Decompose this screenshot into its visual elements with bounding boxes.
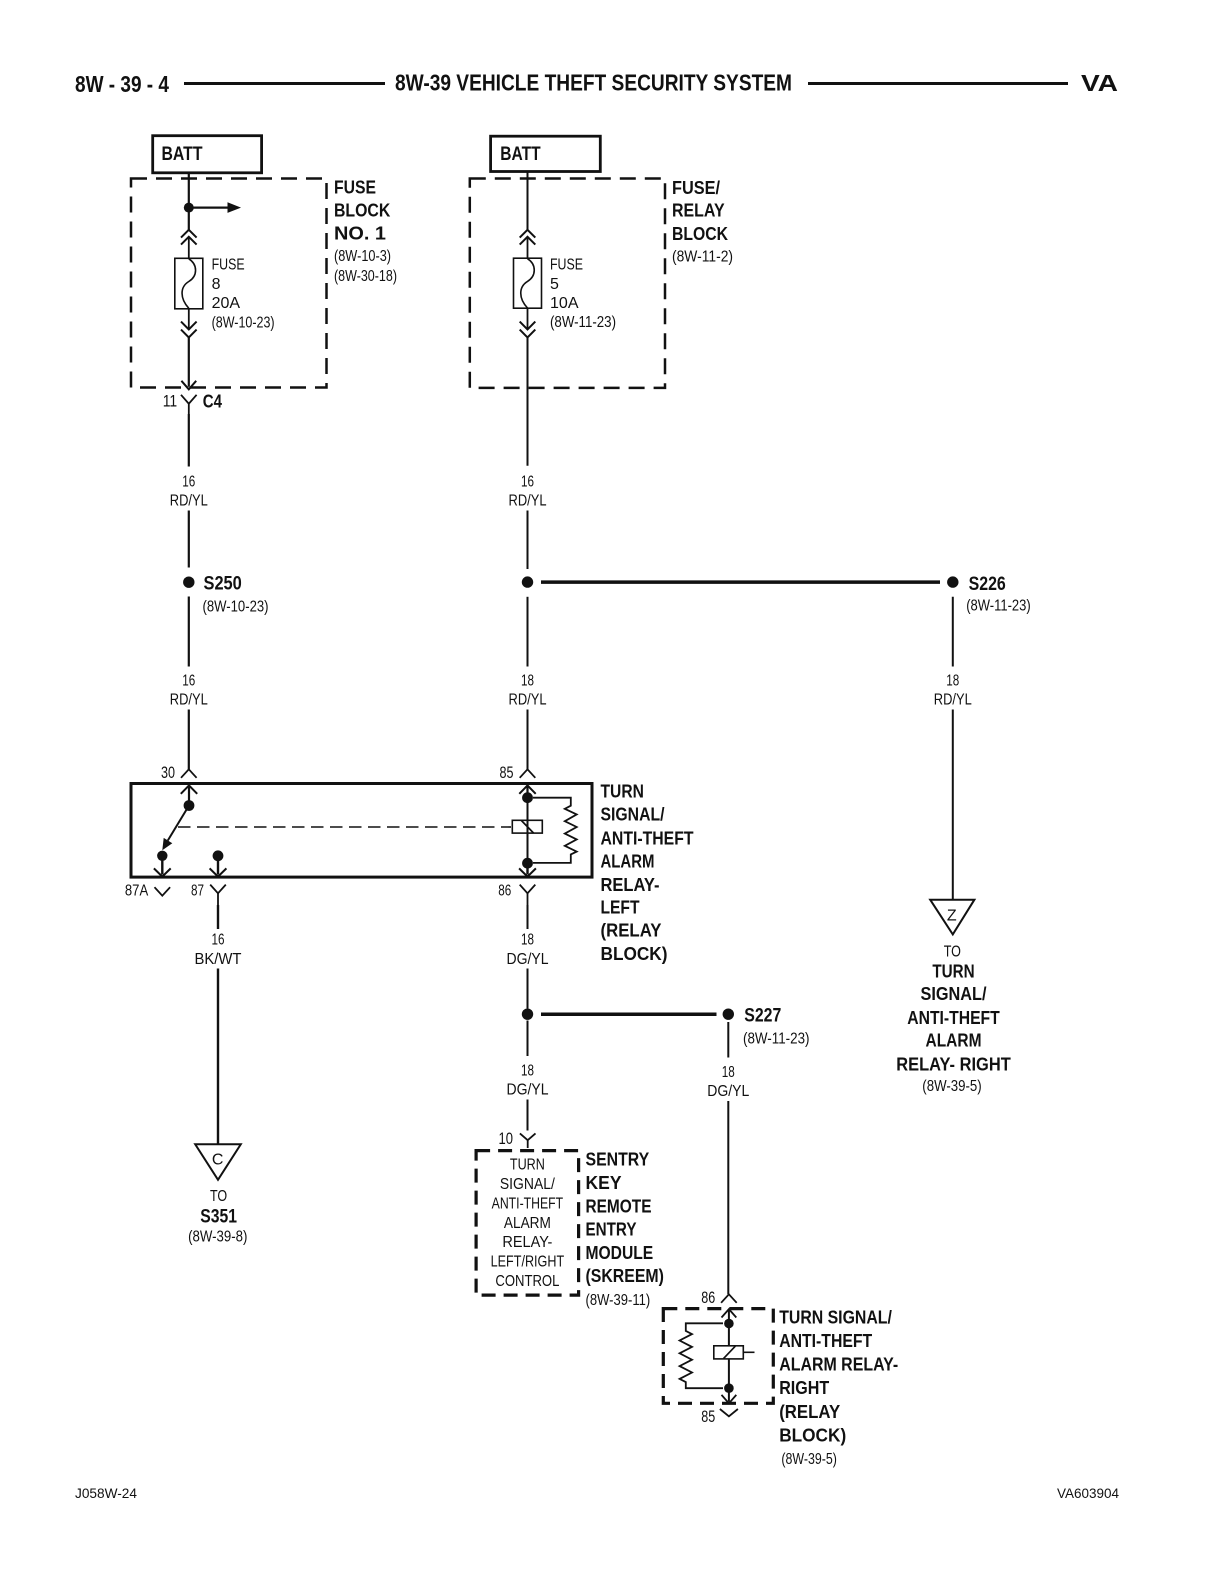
wire BATT to fuse 8 [188,173,190,230]
wire label 16 RD/YL [509,474,547,510]
coil stub to box edge [743,1351,754,1353]
svg-text:BLOCK): BLOCK) [601,944,668,964]
wire splice down to SKREEM [527,1021,529,1057]
svg-text:RIGHT: RIGHT [779,1378,829,1398]
svg-text:(8W-39-5): (8W-39-5) [922,1078,981,1095]
svg-text:TURN: TURN [601,782,644,802]
svg-text:SIGNAL/: SIGNAL/ [601,805,665,825]
svg-text:ANTI-THEFT: ANTI-THEFT [779,1331,872,1351]
svg-text:RD/YL: RD/YL [509,492,547,509]
pin 30 terminal arrow (inside) [181,785,197,805]
splice S250 dot [183,577,194,588]
destination label TO TURN SIGNAL/ANTI-THEFT ALARM RELAY-RIGHT [896,943,1011,1095]
svg-text:16: 16 [521,474,534,491]
svg-text:5: 5 [550,276,559,293]
connector chevrons below fuse 5 [520,322,536,338]
wire S250 down [188,597,190,667]
pin 86 terminal arrow (inside) [519,863,536,876]
coil wire 85 to 86 [527,798,529,863]
svg-text:TO: TO [210,1188,227,1205]
svg-text:J058W-24: J058W-24 [75,1486,137,1501]
wire label 16 RD/YL [170,474,208,510]
wire label 16 BK/WT [195,931,242,968]
svg-text:BK/WT: BK/WT [195,951,242,968]
branch arrow to other circuits [193,202,241,213]
svg-text:C4: C4 [203,390,223,411]
svg-text:(8W-10-23): (8W-10-23) [212,314,275,331]
relay turn signal/anti-theft alarm relay-left box [131,784,592,878]
svg-text:RD/YL: RD/YL [934,691,972,708]
coil node 85 dot [522,792,533,803]
svg-text:8W - 39 - 4: 8W - 39 - 4 [75,71,169,97]
svg-text:(8W-39-5): (8W-39-5) [781,1451,837,1468]
svg-text:RELAY: RELAY [672,200,725,221]
svg-text:RD/YL: RD/YL [170,492,208,509]
label TURN SIGNAL/ANTI-THEFT ALARM RELAY-LEFT (RELAY BLOCK) [601,782,694,964]
pin 85 terminal arrow (inside) [722,1388,737,1403]
svg-text:CONTROL: CONTROL [495,1273,559,1290]
svg-text:TURN: TURN [932,961,974,981]
wire out of fuse/relay block [527,337,529,465]
svg-text:RELAY-: RELAY- [502,1234,552,1251]
label S227 [743,1005,810,1047]
svg-text:NO. 1: NO. 1 [334,223,386,244]
fuse block no.1 dashed box [131,179,327,388]
svg-text:16: 16 [182,673,195,690]
svg-text:(8W-10-3): (8W-10-3) [334,248,391,265]
wire to splice S227 branch [527,969,529,1009]
svg-text:ENTRY: ENTRY [586,1220,637,1240]
splice junction dot (middle) [522,576,533,587]
svg-text:Z: Z [947,907,957,924]
wire middle splice down [527,597,529,667]
svg-text:87A: 87A [125,882,149,899]
svg-text:S227: S227 [744,1005,781,1026]
pin 86 terminal arrow (inside) [722,1309,737,1323]
svg-text:ALARM: ALARM [601,852,655,872]
wire S226 down [952,597,954,667]
relay coil K-right [714,1346,744,1359]
svg-text:DG/YL: DG/YL [507,1082,549,1099]
svg-text:BLOCK: BLOCK [334,199,391,220]
svg-text:(SKREEM): (SKREEM) [586,1266,664,1286]
svg-text:SENTRY: SENTRY [586,1150,650,1170]
label FUSE 8 20A [212,257,275,332]
wire 86 down [527,905,529,929]
svg-text:(8W-30-18): (8W-30-18) [334,268,397,285]
label turn signal/anti-theft alarm relay-left/right control [491,1157,565,1290]
svg-text:REMOTE: REMOTE [586,1197,652,1217]
power feed box BATT (right) [491,136,601,171]
svg-text:(8W-11-23): (8W-11-23) [550,314,616,331]
svg-text:KEY: KEY [586,1173,622,1193]
wire to relay-right pin 86 [727,1101,729,1294]
svg-text:(8W-11-23): (8W-11-23) [966,597,1030,614]
relay turn signal/anti-theft alarm relay-right dashed box [663,1309,773,1404]
svg-text:RD/YL: RD/YL [170,691,208,708]
wire label 18 DG/YL [507,1063,549,1099]
coil node dot bottom [724,1383,734,1393]
svg-text:TO: TO [944,943,961,960]
node 87A dot [157,851,167,861]
pin 10 connector symbol [520,1133,536,1148]
node 87 dot [213,850,224,861]
svg-text:(8W-10-23): (8W-10-23) [203,598,269,615]
svg-text:S351: S351 [200,1206,237,1227]
wire label 16 RD/YL [170,673,208,709]
svg-text:BLOCK): BLOCK) [779,1425,846,1445]
connector C4 symbol [181,395,197,414]
svg-text:(8W-39-11): (8W-39-11) [586,1292,651,1309]
wire label 18 DG/YL [707,1064,749,1100]
svg-text:MODULE: MODULE [586,1243,654,1263]
svg-text:(RELAY: (RELAY [601,921,662,941]
label FUSE 5 10A [550,257,616,332]
wire label 18 RD/YL [934,673,972,709]
splice S226 dot [947,576,958,587]
svg-text:(8W-11-23): (8W-11-23) [743,1030,810,1047]
svg-text:S226: S226 [969,574,1006,595]
pin 87A terminal arrow [154,856,171,877]
wire chevrons to fuse 8 [188,237,190,259]
svg-text:18: 18 [521,931,534,948]
fuse/relay block dashed box [470,179,665,388]
svg-text:16: 16 [182,474,195,491]
coil wire 86 to 85 [728,1324,730,1389]
wire fuse 8 down [188,309,190,329]
svg-text:BLOCK: BLOCK [672,223,729,244]
resistor across coil (right relay) [680,1323,723,1388]
wire label 18 DG/YL [507,931,549,968]
wire 87 down [217,905,219,929]
svg-text:ANTI-THEFT: ANTI-THEFT [907,1008,1000,1028]
wire to relay pin 85 [527,710,529,770]
svg-text:(8W-39-8): (8W-39-8) [188,1228,247,1245]
svg-text:ALARM RELAY-: ALARM RELAY- [779,1355,898,1375]
svg-text:ANTI-THEFT: ANTI-THEFT [492,1195,564,1212]
wire to relay pin 30 [188,710,190,770]
wire S227 down [727,1022,729,1058]
label FUSE/RELAY BLOCK [672,177,733,265]
svg-text:18: 18 [722,1064,735,1081]
svg-text:S250: S250 [204,574,242,595]
wire label 18 RD/YL [509,673,547,709]
svg-text:85: 85 [500,763,514,782]
wire to connector C [217,969,219,1144]
svg-text:ANTI-THEFT: ANTI-THEFT [601,828,694,848]
header rule right [808,82,1068,85]
relay coil K-left [512,820,542,833]
resistor across coil [533,798,577,863]
fuse 8 symbol [175,258,203,309]
svg-text:30: 30 [161,763,175,782]
connector chevrons into fuse [181,230,197,245]
label TURN SIGNAL/ANTI-THEFT ALARM RELAY-RIGHT (RELAY BLOCK) [779,1308,898,1468]
label S250 [203,574,269,616]
label SENTRY KEY REMOTE ENTRY MODULE (SKREEM) [586,1150,664,1309]
splice S227 dot [723,1009,734,1020]
coil node 86 dot [522,858,533,869]
svg-text:18: 18 [521,1063,534,1080]
svg-text:FUSE: FUSE [212,257,245,274]
svg-text:FUSE: FUSE [550,257,583,274]
wire fuse 5 down [527,308,529,329]
svg-text:87: 87 [191,882,204,899]
svg-text:LEFT: LEFT [601,898,640,918]
svg-text:10: 10 [499,1129,514,1148]
wire C4 to S250 [188,414,190,467]
switch armature with arrowhead [162,806,189,851]
svg-text:8: 8 [212,276,221,293]
power feed box BATT (left) [153,136,262,173]
svg-text:BATT: BATT [162,143,203,165]
coil node dot top [724,1319,734,1329]
pin 87 terminal arrow [210,856,227,877]
svg-text:DG/YL: DG/YL [507,951,549,968]
header rule left [184,82,385,85]
splice line to S227 [541,1012,717,1016]
svg-text:FUSE/: FUSE/ [672,177,720,198]
wire chevrons to fuse 5 [527,237,529,259]
splice line to S226 [541,580,940,584]
svg-text:10A: 10A [550,295,579,312]
svg-text:20A: 20A [212,295,241,312]
pin 85 terminal arrow (inside) [519,785,535,798]
svg-text:C: C [212,1152,224,1169]
splice junction dot (86 branch) [522,1009,533,1020]
pin 85 chevron [720,1409,738,1416]
svg-text:11: 11 [163,392,178,411]
mechanical link dashed line [178,826,511,828]
svg-text:TURN: TURN [510,1157,545,1174]
connector chevrons into fuse 5 [520,230,536,245]
svg-text:16: 16 [212,931,225,948]
wire [527,511,529,570]
destination label TO S351 [188,1188,247,1246]
svg-text:SIGNAL/: SIGNAL/ [500,1176,556,1193]
label S226 [966,574,1030,615]
SKREEM dashed box [476,1151,578,1296]
svg-text:SIGNAL/: SIGNAL/ [921,984,987,1004]
svg-text:85: 85 [701,1407,715,1426]
off-page connector C triangle [195,1144,241,1180]
svg-text:VA: VA [1081,70,1118,96]
svg-text:FUSE: FUSE [334,177,376,198]
wire to connector C4 [188,337,190,386]
svg-text:18: 18 [946,673,959,690]
pin 30 chevron [181,769,197,778]
svg-text:LEFT/RIGHT: LEFT/RIGHT [491,1254,565,1271]
wire [527,1100,529,1131]
pin 86 connector symbol [520,885,536,905]
svg-text:18: 18 [521,673,534,690]
pin 86 chevron [721,1294,737,1303]
label FUSE BLOCK NO. 1 [334,177,397,286]
fuse 5 symbol [514,258,542,308]
svg-text:RELAY-: RELAY- [601,875,660,895]
svg-text:86: 86 [498,883,511,900]
svg-text:(8W-11-2): (8W-11-2) [672,248,733,265]
svg-text:RD/YL: RD/YL [509,691,547,708]
switch common node dot [184,800,195,811]
svg-text:DG/YL: DG/YL [707,1083,749,1100]
svg-text:BATT: BATT [500,143,540,165]
connector chevrons below fuse 8 [181,322,197,338]
svg-text:ALARM: ALARM [504,1215,551,1232]
pin 87A chevron [155,887,171,896]
pin 85 chevron [520,769,536,778]
svg-text:ALARM: ALARM [926,1031,982,1051]
arrowhead at fuse block exit [181,381,196,390]
wire BATT2 down [527,172,529,230]
svg-text:8W-39 VEHICLE THEFT SECURITY S: 8W-39 VEHICLE THEFT SECURITY SYSTEM [395,70,792,96]
wire [188,511,190,568]
svg-text:(RELAY: (RELAY [779,1402,840,1422]
svg-text:86: 86 [701,1288,715,1307]
svg-text:RELAY- RIGHT: RELAY- RIGHT [896,1054,1011,1074]
pin 87 connector symbol [210,885,226,905]
svg-text:TURN SIGNAL/: TURN SIGNAL/ [779,1308,892,1328]
off-page connector Z triangle [930,900,974,935]
wire to off-page connector Z [952,710,954,900]
junction dot in fuse block 1 [184,203,194,213]
svg-text:VA603904: VA603904 [1057,1486,1119,1501]
